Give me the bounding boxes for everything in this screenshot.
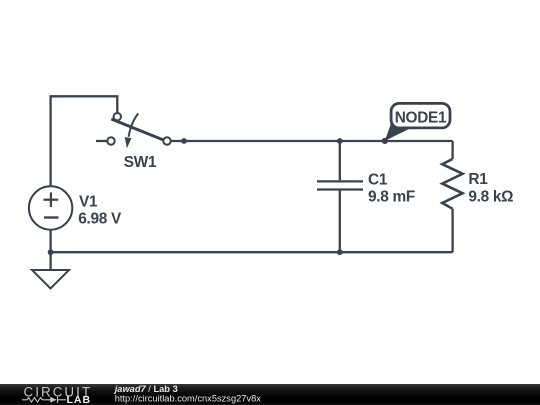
wire ground lead below V1 <box>49 252 51 270</box>
wire stub to switch left throw terminal <box>96 140 107 142</box>
wire from switch right terminal to top-right corner <box>171 140 453 142</box>
node NODE1 dot <box>382 138 388 144</box>
wire right vertical from resistor R1 bottom <box>451 209 453 253</box>
svg-text:LAB: LAB <box>67 394 92 405</box>
junction dot after switch <box>181 138 187 144</box>
wire right vertical into resistor R1 top <box>451 141 453 159</box>
svg-text:http://circuitlab.com/cnx5szsg: http://circuitlab.com/cnx5szsg27v8x <box>115 394 262 404</box>
junction dot V1 bottom <box>48 249 54 255</box>
wire left vertical from top-left corner down to V1 top <box>49 96 51 186</box>
resistor R1 <box>442 159 462 209</box>
switch SW1 <box>107 113 170 148</box>
junction dot capacitor top <box>337 138 343 144</box>
wire capacitor C1 bottom lead <box>339 190 341 253</box>
wire top-left horizontal to switch drop <box>50 96 118 113</box>
ground <box>32 270 69 289</box>
capacitor C1 <box>317 181 363 189</box>
junction dot capacitor bottom <box>337 249 343 255</box>
wire capacitor C1 top lead <box>339 141 341 181</box>
voltage source V1 <box>29 186 72 229</box>
node label NODE1 callout <box>385 103 450 140</box>
wire bottom horizontal <box>50 251 453 253</box>
wire V1 bottom to bottom rail <box>49 230 51 253</box>
svg-text:jawad7 / Lab 3: jawad7 / Lab 3 <box>114 384 178 394</box>
footer bar <box>0 384 540 405</box>
CircuitLab logo resistor-diode glyph <box>22 397 66 403</box>
